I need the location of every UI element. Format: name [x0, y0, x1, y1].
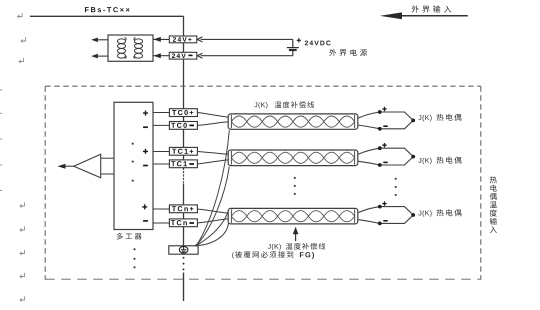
- battery 24VDC external supply: [292, 39, 294, 55]
- wire TC1- to compensation cable: [197, 160, 229, 164]
- multiplexer ellipsis dots: [132, 143, 134, 145]
- wire shield CH0 to FG: [196, 130, 229, 246]
- label external input: [412, 5, 419, 12]
- label shield must connect to FG: [232, 252, 234, 259]
- transformer isolation box: [108, 35, 153, 61]
- label 24VDC: [305, 41, 331, 46]
- thermocouple junction CHn: [358, 207, 413, 224]
- thermocouple junction CH1: [358, 148, 413, 165]
- dotted bus below FG: [183, 257, 185, 259]
- ground FG terminal box: [169, 246, 198, 254]
- op-amp buffer triangle: [74, 154, 101, 178]
- wire bus tail bottom: [183, 273, 185, 302]
- wire TC1+ to compensation cable: [197, 152, 229, 155]
- arrow pointing to cable CHn: [295, 233, 297, 242]
- wire shield CHn upper to FG: [196, 212, 228, 246]
- ground symbol circled: [179, 246, 188, 253]
- module boundary dashed right: [480, 86, 482, 280]
- arrow into transformer lower: [153, 55, 169, 57]
- transformer primary coil: [117, 39, 125, 44]
- wire TC0+ to compensation cable: [197, 113, 229, 118]
- arrow into transformer upper: [153, 38, 169, 40]
- label J(K) thermocouple CH1: [418, 158, 431, 165]
- thermocouple junction CH0: [358, 112, 413, 129]
- wire shield CHn lower to FG: [196, 223, 228, 246]
- compensation cable CH0 shielded twisted pair: [228, 114, 358, 129]
- wire top horizontal from left to main bus: [30, 15, 184, 17]
- battery plus sign: [297, 38, 301, 42]
- ellipsis between CH1 and CHn right: [395, 178, 397, 180]
- terminal 24V-: [169, 52, 197, 59]
- wire multiplexer to TC0+: [153, 112, 169, 114]
- arrow output left upper: [97, 39, 108, 41]
- compensation cable CHn shielded twisted pair: [228, 208, 358, 224]
- wire multiplexer to TCn+: [153, 208, 169, 210]
- wire TC0- to compensation cable: [197, 122, 229, 126]
- wire multiplexer to TC0-: [153, 124, 169, 126]
- label J(K) compensation wire top: [254, 102, 267, 109]
- arrow external input: [398, 15, 468, 17]
- multiplexer box U1: [114, 102, 153, 229]
- label FBs-TCxx module name: [85, 7, 130, 12]
- ellipsis below multiplexer: [133, 248, 135, 250]
- paragraph marks decorative: [18, 13, 23, 18]
- wire TCn- to compensation cable: [197, 219, 229, 223]
- label external power supply: [329, 49, 336, 56]
- wire TCn+ to compensation cable: [197, 209, 229, 213]
- multiplexer channel polarity marks: [143, 111, 148, 116]
- wire main vertical bus dotted segment: [183, 172, 185, 183]
- wire shield CH1 to FG: [196, 167, 229, 246]
- module boundary dashed left: [44, 86, 46, 280]
- terminal 24V+: [169, 36, 197, 43]
- wire 24V+ to battery: [201, 38, 293, 40]
- label J(K) thermocouple CH0: [418, 115, 431, 122]
- terminal TCn-: [169, 219, 197, 227]
- label J(K) compensation wire bottom: [268, 244, 281, 251]
- wire op-amp input lower: [101, 173, 114, 175]
- wire op-amp input upper: [101, 157, 114, 159]
- wire multiplexer to TC1+: [153, 151, 169, 153]
- junction wedge at FG corner: [194, 243, 198, 246]
- compensation cable CH1 shielded twisted pair: [228, 150, 358, 166]
- label J(K) thermocouple CHn: [418, 210, 431, 217]
- terminal TC0-: [169, 122, 197, 130]
- wire 24V- to battery: [201, 55, 293, 57]
- wire main vertical bus lower segment: [183, 184, 185, 247]
- wire multiplexer to TCn-: [153, 222, 169, 224]
- terminal TCn+: [169, 205, 197, 213]
- wire multiplexer to TC1-: [153, 163, 169, 165]
- arrow op-amp output: [63, 165, 74, 167]
- module boundary dashed top: [45, 85, 481, 87]
- wire main vertical bus upper segment: [183, 16, 185, 170]
- module boundary dashed bottom: [45, 278, 481, 280]
- label thermocouple temperature input vertical: [490, 176, 497, 183]
- arrow output left lower: [97, 55, 108, 57]
- transformer secondary coil: [134, 39, 142, 44]
- terminal TC1+: [169, 147, 197, 155]
- label multiplexer: [117, 233, 123, 240]
- terminal TC0+: [169, 109, 197, 117]
- terminal TC1-: [169, 160, 197, 168]
- ellipsis between CH1 and CHn left: [294, 177, 296, 179]
